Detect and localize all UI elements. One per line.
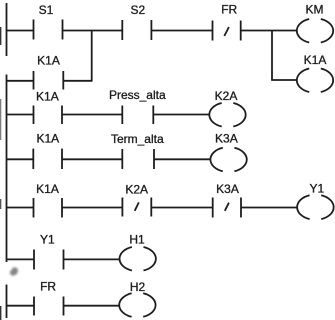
contact K2A NC: [122, 198, 151, 217]
coil K2A: [209, 103, 245, 127]
wire rung5 K3A to Y1 coil: [241, 207, 297, 209]
node junction rung1 to K1A coil branch: [271, 31, 273, 81]
contact K3A NC: [213, 198, 241, 218]
svg-text:K1A: K1A: [37, 53, 60, 67]
svg-text:K2A: K2A: [125, 183, 148, 197]
wire rung4 rail to K1A: [6, 158, 34, 160]
node junction rung1/rung2: [91, 31, 93, 82]
wire rung1 FR to KM coil: [241, 30, 297, 32]
svg-text:FR: FR: [221, 3, 237, 17]
wire rung6 Y1 to H1 coil: [64, 258, 120, 260]
wire rung3 rail to K1A: [6, 114, 34, 116]
wire rung3 Press_alta to K2A coil: [153, 114, 209, 116]
contact K1A rung4: [33, 149, 62, 169]
wire rung6 rail to Y1: [6, 258, 34, 260]
svg-text:K1A: K1A: [36, 132, 59, 146]
wire rung1 S1 to S2: [63, 30, 123, 32]
svg-text:K3A: K3A: [216, 182, 239, 196]
wire rung2 K1A to junction: [63, 80, 92, 82]
svg-text:K2A: K2A: [215, 89, 238, 103]
contact S1: [34, 20, 63, 40]
contact Press_alta: [122, 106, 153, 125]
contact K1A rung5: [34, 198, 63, 218]
coil H2: [119, 293, 155, 317]
wire rung7 FR to H2 coil: [64, 305, 120, 307]
coil H1: [120, 247, 156, 271]
contact S2: [122, 20, 151, 40]
wire rung3 K1A to Press_alta: [62, 114, 122, 116]
svg-text:H2: H2: [130, 280, 146, 294]
svg-text:Y1: Y1: [309, 181, 324, 195]
wire rung1 rail to S1: [6, 30, 34, 32]
scan edge artifact low: [0, 199, 2, 209]
wire rung4 K1A to Term_alta: [62, 158, 122, 160]
wire rung5 rail to K1A: [6, 207, 34, 209]
wire rung5 K1A to K2A: [62, 207, 122, 209]
svg-text:S2: S2: [130, 3, 145, 17]
coil Y1: [297, 195, 334, 219]
contact FR NC: [213, 21, 241, 41]
contact K1A rung2: [34, 71, 64, 90]
contact K1A rung3: [34, 106, 63, 125]
coil K3A: [210, 148, 246, 172]
contact Y1 rung6: [34, 250, 64, 270]
scan edge artifact mid: [0, 99, 2, 140]
contact Term_alta: [122, 149, 154, 169]
svg-text:Press_alta: Press_alta: [109, 88, 166, 102]
scan edge artifact bottom: [0, 306, 2, 320]
wire rung7 rail to FR: [6, 305, 34, 307]
svg-text:KM: KM: [306, 3, 324, 17]
svg-text:K3A: K3A: [215, 132, 238, 146]
coil KM: [297, 19, 333, 43]
wire rung5 K2A to K3A: [151, 207, 212, 209]
svg-text:Y1: Y1: [40, 233, 55, 247]
svg-text:Term_alta: Term_alta: [111, 132, 164, 146]
svg-text:H1: H1: [129, 233, 145, 247]
wire rung2 rail to K1A: [6, 80, 34, 82]
svg-text:K1A: K1A: [36, 182, 59, 196]
svg-text:FR: FR: [40, 280, 56, 294]
wire rung1 S2 to FR: [151, 30, 212, 32]
left power rail: [6, 3, 8, 318]
wire branch to K1A coil: [271, 79, 297, 81]
mouse cursor artifact: [10, 267, 18, 276]
svg-text:S1: S1: [39, 3, 54, 17]
contact FR rung7: [34, 297, 64, 316]
wire rung4 Term_alta to K3A coil: [154, 158, 210, 160]
svg-text:K1A: K1A: [36, 90, 59, 104]
coil K1A: [297, 69, 333, 93]
svg-text:K1A: K1A: [304, 53, 327, 67]
scan edge artifact top: [0, 27, 2, 45]
